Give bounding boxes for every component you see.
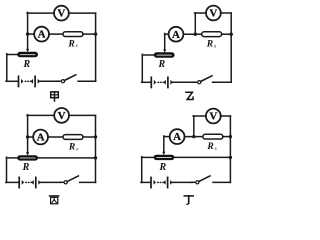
wire to battery xyxy=(6,181,19,183)
wire top-left vertical xyxy=(27,12,29,34)
voltmeter V xyxy=(206,109,221,124)
wire switch to right corner xyxy=(213,181,230,183)
wire V branch top right xyxy=(221,12,232,14)
wire top row right xyxy=(69,114,96,116)
svg-text:R: R xyxy=(22,59,30,70)
battery pack xyxy=(151,177,173,187)
ammeter A xyxy=(34,27,49,42)
wire Rx to right xyxy=(222,33,232,35)
wire battery to switch xyxy=(40,80,58,82)
wire switch to right corner xyxy=(78,80,96,82)
wire right vertical xyxy=(229,116,231,182)
ammeter A xyxy=(169,27,184,42)
slider arrow xyxy=(26,152,29,155)
wire right vertical xyxy=(230,13,232,82)
wire V branch top left xyxy=(193,115,206,117)
svg-text:V: V xyxy=(57,8,65,20)
wire left vertical xyxy=(141,157,143,183)
wire A-row left stub xyxy=(165,33,169,35)
wire left vertical xyxy=(141,54,143,82)
svg-text:R: R xyxy=(158,162,166,173)
wire Rx to right xyxy=(83,136,96,138)
wire top row right xyxy=(69,12,96,14)
wire to battery xyxy=(141,181,151,183)
slider arrow xyxy=(162,152,165,155)
resistance box Rx xyxy=(63,32,83,37)
junction rheostat row right xyxy=(229,156,232,159)
svg-text:R: R xyxy=(67,39,74,49)
wire rheostat to left edge xyxy=(142,156,155,158)
wire A-row left stub xyxy=(164,136,170,138)
rheostat R body xyxy=(154,53,174,58)
wire slider stem xyxy=(163,136,165,152)
svg-text:A: A xyxy=(38,29,46,41)
svg-text:R: R xyxy=(68,143,75,153)
node under V branch xyxy=(192,135,195,138)
wire A-row left stub xyxy=(28,33,35,35)
wire rheostat right terminal to right wire xyxy=(174,156,231,158)
wire A to node xyxy=(183,33,202,35)
wire battery to switch xyxy=(173,81,194,83)
wire switch to right corner xyxy=(213,81,232,83)
wire to battery xyxy=(6,80,18,82)
svg-text:A: A xyxy=(37,132,45,144)
wire rheostat to left edge xyxy=(142,54,154,56)
slider arrow xyxy=(163,49,166,52)
svg-text:V: V xyxy=(209,8,217,20)
wire top row left xyxy=(27,12,54,14)
wire V branch top left xyxy=(195,12,207,14)
wire to battery xyxy=(142,81,151,83)
junction right of A-row xyxy=(94,32,97,35)
battery pack xyxy=(19,76,41,86)
wire rheostat to left edge xyxy=(7,54,18,56)
wire A-row left stub xyxy=(28,136,34,138)
junction Rx right xyxy=(230,33,233,36)
rheostat R body xyxy=(18,52,38,57)
rheostat R body xyxy=(18,156,38,161)
svg-text:A: A xyxy=(173,131,181,143)
switch S xyxy=(60,176,79,184)
wire right vertical xyxy=(95,13,97,81)
ammeter A xyxy=(170,129,185,144)
wire slider stem xyxy=(27,34,29,49)
svg-text:R: R xyxy=(22,162,30,173)
wire left vertical xyxy=(6,54,8,82)
wire left vertical xyxy=(6,157,8,182)
voltmeter V xyxy=(54,6,69,21)
label 甲 xyxy=(51,92,59,101)
label 丙 xyxy=(50,196,59,204)
node left of A xyxy=(26,135,29,138)
label 乙 xyxy=(186,92,193,99)
wire slider stem xyxy=(27,137,29,153)
battery pack xyxy=(151,77,173,87)
switch S xyxy=(191,176,210,184)
resistance box Rx xyxy=(202,32,222,37)
wire battery to switch xyxy=(41,181,61,183)
svg-text:R: R xyxy=(206,142,213,152)
voltmeter V xyxy=(206,6,221,21)
wire Rx to right xyxy=(223,136,231,138)
wire A to node xyxy=(185,136,204,138)
junction Rx right xyxy=(229,135,232,138)
svg-text:R: R xyxy=(206,40,213,50)
wire top row left xyxy=(27,114,54,116)
node (left junction of meter branch) xyxy=(26,32,29,35)
wire slider stem xyxy=(164,34,166,50)
resistance box Rx xyxy=(63,135,83,140)
battery pack xyxy=(19,177,41,187)
wire V branch top right xyxy=(221,115,231,117)
wire V branch vertical xyxy=(194,13,196,34)
wire rheostat to left edge xyxy=(7,157,18,159)
svg-text:V: V xyxy=(58,110,66,122)
resistance box Rx xyxy=(203,134,223,139)
wire switch to right corner xyxy=(80,181,96,183)
wire A to Rx xyxy=(49,33,63,35)
ammeter A xyxy=(33,130,48,145)
wire Rx to right xyxy=(83,33,96,35)
node under V branch xyxy=(194,33,197,36)
junction rheostat row right xyxy=(94,156,97,159)
voltmeter V xyxy=(54,108,69,123)
rheostat R body xyxy=(154,155,174,160)
wire V branch vertical xyxy=(193,116,195,137)
wire A to Rx xyxy=(48,136,63,138)
svg-text:R: R xyxy=(157,59,165,70)
label 丁 xyxy=(184,196,193,204)
wire battery to switch xyxy=(173,181,193,183)
switch S xyxy=(193,76,212,84)
junction right of A-row xyxy=(94,135,97,138)
wire right vertical xyxy=(95,115,97,182)
wire rheostat right terminal to right wire xyxy=(37,157,95,159)
wire top-left vertical xyxy=(27,115,29,137)
switch S xyxy=(57,75,76,83)
svg-text:A: A xyxy=(172,29,180,41)
svg-text:V: V xyxy=(209,111,217,123)
slider arrow xyxy=(26,49,29,52)
